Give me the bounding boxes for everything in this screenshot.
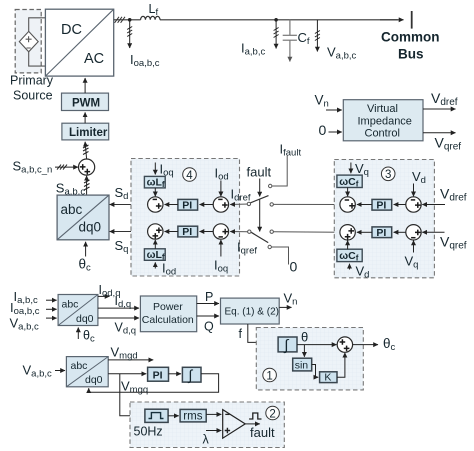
wire Va,b,c into abc/dq0 B	[55, 370, 65, 372]
limiter box	[62, 123, 109, 140]
wire Iod into sum E2	[220, 181, 222, 197]
wire Vq into sum E8	[413, 241, 415, 253]
svg-text:3: 3	[385, 169, 391, 181]
svg-text:K: K	[324, 372, 331, 384]
PI controller P3a	[372, 199, 392, 211]
wire K to sum E9	[337, 353, 345, 377]
svg-text:θ: θ	[301, 330, 308, 345]
summing junction E1 (Sd out)	[148, 197, 163, 212]
wire Vd,q to power calculation	[98, 317, 139, 319]
pulse symbol on fault output	[249, 413, 261, 419]
wire theta-c into abc/dq0	[85, 242, 87, 257]
node at converter output	[128, 18, 132, 22]
wire zone3 row2 output to switch SW2	[274, 231, 341, 234]
three-phase marks on converter output	[115, 17, 125, 23]
voltage measurement Va,b,c	[315, 20, 357, 62]
svg-text:PI: PI	[376, 227, 386, 239]
svg-text:Limiter: Limiter	[69, 127, 108, 139]
wire sum to limiter with three-phase marks	[83, 142, 89, 159]
wire Vd into wCf2	[349, 264, 351, 270]
switch SW1 blade	[251, 196, 269, 203]
circled number 1	[263, 368, 277, 382]
virtual impedance control box U-VIC	[343, 100, 423, 141]
fault actuation wire lower	[259, 200, 261, 232]
wire Vmgd output stub	[108, 359, 153, 361]
wire Id,q to power calculation	[98, 307, 139, 309]
wire wLf1 to sum E1	[154, 188, 156, 196]
svg-text:λ: λ	[203, 433, 210, 447]
K block	[320, 372, 337, 384]
svg-text:dq0: dq0	[85, 374, 103, 386]
wire Idref from switch to E2	[230, 203, 249, 206]
wire PWM to converter	[84, 78, 86, 93]
zone 3 dashed region (voltage loop)	[334, 160, 434, 278]
svg-text:PI: PI	[182, 226, 192, 238]
equation block Eq.(1)&(2)	[221, 298, 280, 324]
capacitor Cf	[283, 20, 297, 62]
svg-text:0: 0	[290, 259, 298, 275]
current measurement Ia,b,c	[241, 20, 279, 58]
wire theta-c into abc/dq0 A	[77, 328, 79, 340]
PI controller P5 (PLL)	[148, 367, 169, 381]
summing junction E7 (zone3 row2 out)	[340, 225, 355, 240]
svg-text:Power: Power	[153, 301, 183, 313]
svg-text:fault: fault	[247, 165, 272, 180]
svg-text:2: 2	[269, 408, 275, 420]
wire PI P4a to E1	[165, 204, 178, 206]
svg-text:50Hz: 50Hz	[134, 425, 163, 439]
comparator triangle	[223, 410, 246, 439]
wire Vmgq branch down to zone 2	[120, 374, 144, 416]
gain block wLf (top)	[144, 176, 165, 189]
wire lambda to comparator	[206, 430, 221, 432]
wire Vd into sum E6	[413, 184, 415, 197]
summing junction E9 (theta correction)	[337, 337, 352, 352]
gain block wCf (bottom)	[337, 249, 362, 262]
wire comparator to fault output	[245, 423, 260, 425]
wire sin to K	[312, 365, 319, 378]
svg-text:sin: sin	[295, 359, 309, 371]
comparator plus sign	[225, 428, 230, 433]
wire Vq into wCf1	[350, 163, 352, 174]
svg-text:Q: Q	[204, 320, 214, 334]
wire VIC out Vqref	[423, 132, 456, 134]
svg-text:DC: DC	[61, 22, 82, 38]
svg-text:Impedance: Impedance	[358, 115, 412, 127]
wire PI P4b to E3	[165, 231, 178, 233]
wire f to integrator	[248, 324, 277, 342]
wire Ioq into sum E4	[220, 240, 222, 257]
transform block abc/dq0 B (PLL)	[66, 357, 108, 387]
summing junction E5 (zone3 row1 out)	[340, 197, 355, 212]
wire E6 to PI P3a	[394, 204, 407, 206]
wire VIC out Vdref	[423, 108, 456, 110]
wire PI P5 to integrator B	[169, 373, 182, 375]
wire E8 to PI P3b	[394, 231, 407, 233]
svg-text:0: 0	[319, 122, 327, 138]
bandpass filter block (50Hz)	[145, 409, 168, 422]
wire Sq into abc/dq0	[110, 231, 149, 233]
circled number 2	[266, 406, 280, 420]
wire Sa,b,c_n into sum with marks	[55, 165, 78, 170]
svg-text:Bus: Bus	[398, 47, 424, 62]
wire 0 into VIC	[329, 131, 342, 133]
wire rms to comparator	[206, 413, 221, 415]
transform block abc/dq0 (inverter reference)	[57, 195, 109, 240]
wire PLL feedback loop	[89, 374, 219, 393]
rms block	[180, 409, 206, 422]
wire Vn output	[279, 306, 291, 308]
wire Ifault to switch throw	[272, 156, 287, 187]
switch SW2 contacts	[248, 230, 274, 249]
wire zone3 row1 output to switch SW1	[274, 203, 341, 205]
summing junction E6 (Vdref compare)	[406, 197, 421, 212]
node at Ia,b,c tap	[274, 18, 278, 22]
circled number 4	[183, 168, 197, 182]
wire wCf2 to sum E7	[347, 241, 349, 250]
wire Vn into VIC	[326, 109, 342, 111]
wire P to Eq box	[197, 303, 219, 305]
common bus bar	[411, 11, 413, 29]
transform block abc/dq0 A (measurements)	[58, 295, 98, 326]
wire Iod into wLf2	[154, 262, 156, 268]
PI controller P4b	[178, 226, 198, 238]
wire source top to converter	[29, 18, 46, 32]
svg-text:abc: abc	[71, 360, 88, 372]
inductor Lf	[141, 2, 160, 20]
current measurement Ioa,b,c	[127, 20, 160, 69]
wire PI P3b to E7	[357, 231, 372, 233]
wire bandpass to rms	[168, 415, 179, 417]
wire Ia,b,c into abc/dq0 A	[46, 299, 57, 301]
integrator block (zone1)	[278, 337, 297, 354]
wire Sd into abc/dq0	[110, 204, 149, 206]
svg-text:1: 1	[266, 370, 272, 382]
zone 4 dashed region (current loop)	[131, 159, 240, 277]
wire integrator to sum E9	[297, 344, 337, 346]
svg-text:P: P	[205, 290, 213, 304]
svg-text:Common: Common	[381, 30, 440, 45]
wire Q to Eq box	[197, 315, 219, 317]
svg-text:f: f	[239, 327, 243, 341]
wire E9 to theta-c output	[352, 344, 378, 346]
svg-text:dq0: dq0	[79, 220, 102, 235]
svg-text:Source: Source	[13, 89, 53, 103]
wire theta to sin	[303, 345, 305, 357]
svg-text:dq0: dq0	[76, 313, 94, 325]
fault actuation wire upper	[259, 179, 261, 197]
svg-text:Eq. (1) & (2): Eq. (1) & (2)	[225, 307, 279, 318]
switch SW2 blade	[251, 232, 268, 242]
wire Iqref from switch to E4	[230, 231, 247, 233]
wire Vdref into E6	[422, 204, 445, 206]
zone 1 dashed region (frequency to angle)	[256, 328, 363, 390]
summing junction E4 (Iqref compare)	[213, 224, 228, 239]
svg-text:PWM: PWM	[72, 97, 100, 109]
svg-text:fault: fault	[250, 425, 275, 440]
svg-text:rms: rms	[183, 411, 202, 423]
wire Vmgq to PI P5	[108, 373, 146, 375]
svg-text:AC: AC	[84, 51, 104, 67]
PI controller P3b	[372, 227, 392, 239]
summing junction S1	[79, 159, 95, 175]
svg-text:Control: Control	[365, 128, 400, 140]
summing junction E8 (Vqref compare)	[406, 225, 421, 240]
circled number 3	[381, 167, 395, 181]
converter DC/AC box	[45, 9, 113, 76]
wire abc/dq0 up into sum with marks	[84, 176, 90, 195]
svg-text:abc: abc	[62, 299, 79, 311]
wire E2 to PI P4a	[200, 204, 214, 206]
primary source symbol (diamond with +/-)	[19, 31, 38, 51]
svg-text:PI: PI	[376, 199, 386, 211]
wire Ioa,b,c into abc/dq0 A	[46, 308, 57, 310]
zone 2 dashed region (fault detection)	[130, 402, 284, 448]
bus arrow into common bus bar	[380, 19, 404, 21]
summing junction E3 (Sq out)	[148, 224, 163, 239]
sin block	[293, 358, 312, 371]
wire Ioq into wLf1	[154, 163, 156, 175]
wire limiter to PWM	[84, 112, 86, 123]
gain block wCf (top)	[337, 175, 362, 188]
integrator block B (PLL)	[182, 367, 201, 384]
svg-text:PI: PI	[153, 370, 163, 382]
wire Va,b,c into abc/dq0 A	[46, 317, 57, 319]
svg-text:4: 4	[186, 170, 193, 182]
gain block wLf (bottom)	[144, 249, 165, 262]
comparator minus sign	[225, 413, 229, 415]
svg-text:PI: PI	[182, 199, 192, 211]
wire 0 to switch SW2 throw	[272, 247, 289, 265]
wire Iod,q output stub	[98, 295, 110, 297]
wire wCf1 to sum E5	[347, 188, 349, 197]
wire converter output to bus	[114, 19, 141, 21]
power calculation box	[140, 296, 196, 332]
wire PI P3a to E5	[357, 204, 372, 206]
svg-text:Virtual: Virtual	[367, 103, 398, 115]
svg-text:Calculation: Calculation	[142, 314, 194, 326]
PWM box	[62, 93, 109, 110]
wire wLf2 to sum E3	[154, 240, 156, 249]
PI controller P4a	[178, 199, 198, 211]
summing junction E2 (Idref compare)	[213, 197, 228, 212]
wire Vqref into E8	[422, 231, 444, 233]
wire E4 to PI P4b	[200, 231, 214, 233]
switch SW1 contacts	[247, 184, 273, 206]
wire source bottom to converter	[29, 52, 46, 66]
primary source dashed enclosure	[15, 10, 41, 73]
svg-text:abc: abc	[61, 202, 83, 217]
